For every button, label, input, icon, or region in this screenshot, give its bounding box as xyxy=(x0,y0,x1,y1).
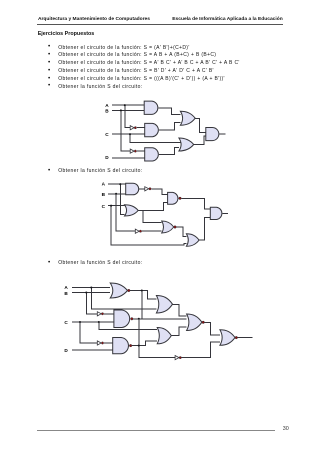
junction on A xyxy=(90,286,92,288)
inverter NOT5 xyxy=(97,312,101,316)
junction on B xyxy=(85,291,87,293)
wire B tap to NOT2 xyxy=(121,110,130,151)
wire C tap to U10 xyxy=(111,206,186,246)
svg-text:C: C xyxy=(102,204,106,209)
wire U1 out to U4 xyxy=(159,108,181,115)
OR gate U8 xyxy=(125,205,139,216)
junction on C xyxy=(110,205,112,207)
wire U16 out to U18 xyxy=(171,327,186,335)
wire U14 out to U18 xyxy=(173,304,187,316)
wire U7 out to NOT3 xyxy=(139,188,145,190)
OR gate U4 xyxy=(180,111,195,125)
junction on B xyxy=(120,109,122,111)
svg-text:B: B xyxy=(64,291,68,296)
svg-text:C: C xyxy=(64,320,68,325)
AND gate U12 xyxy=(210,207,222,219)
NOR gate U18 xyxy=(187,314,202,331)
wire A to U13 xyxy=(72,287,110,289)
NOR gate U13 xyxy=(110,283,127,298)
OR gate U10 xyxy=(186,234,199,247)
svg-text:D: D xyxy=(105,155,109,160)
wire B tap to NOT4 xyxy=(116,194,135,231)
OR gate U5 xyxy=(179,138,194,151)
NAND gate U15 xyxy=(114,310,130,328)
NOR gate U11 xyxy=(162,221,174,233)
inverter NOT6 xyxy=(97,341,101,345)
wire B tap to NOT5 xyxy=(86,293,97,314)
junction on A xyxy=(124,104,126,106)
svg-text:B: B xyxy=(105,108,109,113)
wire NOT1 to U2 xyxy=(137,127,145,129)
junction U17 out xyxy=(138,345,140,347)
AND gate U7 xyxy=(126,183,139,195)
wire A tap to U14 xyxy=(91,288,156,309)
wire U11 out to U10 xyxy=(176,227,186,236)
wire C to U2 xyxy=(112,133,145,135)
wire U10 out to U12 xyxy=(199,217,210,240)
wire NOT5 to U15 xyxy=(104,313,114,315)
junction on C xyxy=(129,133,131,135)
inverter NOT2 xyxy=(130,149,134,153)
inverter NOT3 xyxy=(145,187,149,191)
junction U15 out xyxy=(138,318,140,320)
svg-text:C: C xyxy=(105,132,109,137)
wire B to U13 xyxy=(72,292,110,294)
wire D to U17 xyxy=(72,349,113,351)
junction on C (2) xyxy=(79,321,81,323)
wire B to U1 xyxy=(112,109,144,111)
AND gate U3 xyxy=(145,148,159,161)
wire U18 out to U19 xyxy=(205,322,220,335)
wire U17 out to U16 xyxy=(132,341,157,346)
wire NOT4 to U11 xyxy=(142,230,162,232)
bubble U18 output xyxy=(202,321,205,324)
wire A to U1 xyxy=(112,104,144,106)
AND gate U6 xyxy=(206,128,219,141)
wire U13 out to U14 xyxy=(130,291,156,300)
wire U4 out to U6 xyxy=(195,118,206,132)
wire NOT2 to U3 xyxy=(137,150,145,152)
bubble U11 output xyxy=(174,226,177,229)
svg-text:A: A xyxy=(105,103,109,108)
NOR gate U19 xyxy=(220,330,235,346)
logic circuit 1 xyxy=(100,95,230,165)
wire A tap to NOT1 xyxy=(125,105,130,128)
AND gate U2 xyxy=(145,123,159,136)
wire C tap to U16 xyxy=(99,322,157,329)
wire C to U8 xyxy=(108,205,125,207)
logic circuit 3 xyxy=(60,278,260,368)
wire U8 out to U9 xyxy=(138,202,167,210)
wire U9 out to U12 xyxy=(181,198,210,209)
OR gate U14 xyxy=(156,296,172,314)
junction on A xyxy=(119,183,121,185)
bubble U17 output xyxy=(129,344,132,347)
logic circuit 2 xyxy=(100,178,235,253)
inverter NOT1 xyxy=(130,126,134,130)
OR gate U16 xyxy=(157,328,171,344)
wire U3 out to U5 xyxy=(159,148,179,155)
wire A tap to U8 xyxy=(120,184,124,214)
inverter NOT4 xyxy=(135,229,139,233)
bubble U19 output xyxy=(235,336,238,339)
bubble U9 output xyxy=(179,197,182,200)
svg-text:B: B xyxy=(102,192,106,197)
wire C to U15 xyxy=(72,321,114,323)
wire C tap to U5 input xyxy=(130,134,180,142)
wire D to U3 xyxy=(112,157,145,159)
wire A to U7 xyxy=(108,183,126,185)
junction on B xyxy=(115,193,117,195)
svg-text:A: A xyxy=(102,182,106,187)
wire down to NOT7 xyxy=(139,319,175,358)
NAND gate U9 xyxy=(168,192,178,204)
wire NOT7 to U19 xyxy=(182,342,220,358)
junction U13 out xyxy=(141,289,143,291)
wire U5 out to U6 xyxy=(194,136,206,144)
bubble U15 output xyxy=(131,318,134,321)
AND gate U1 xyxy=(144,101,158,114)
wire U2 out to U4 xyxy=(159,122,180,130)
NAND gate U17 xyxy=(113,338,129,354)
wire U15 out to U18 xyxy=(133,318,187,320)
junction on C xyxy=(98,321,100,323)
inverter NOT7 xyxy=(175,356,179,360)
wire C tap to NOT6 xyxy=(80,322,97,343)
wire U12 output S xyxy=(223,212,228,214)
wire U13 branch down xyxy=(141,291,143,319)
wire B to U7 xyxy=(108,193,126,195)
svg-text:A: A xyxy=(64,285,68,290)
svg-text:D: D xyxy=(64,348,68,353)
wire U8 branch to U11 xyxy=(143,210,162,222)
wire U6 output S xyxy=(219,133,226,135)
wire NOT6 to U17 xyxy=(104,342,113,344)
bubble U13 output xyxy=(128,289,131,292)
wire U19 output S xyxy=(238,337,253,339)
wire NOT3 to U9 xyxy=(152,189,168,195)
